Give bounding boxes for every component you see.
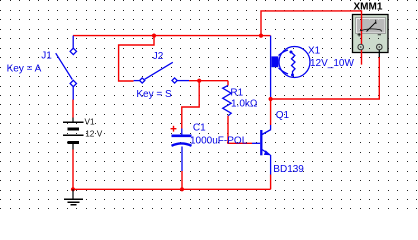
transistor Q1 (252, 125, 271, 175)
switch J1 (56, 36, 77, 100)
wire XMM1 minus to lamp node (271, 57, 380, 99)
svg-text:Key = S: Key = S (136, 89, 172, 100)
wire J1 to battery (72, 100, 74, 118)
svg-text:V1: V1 (85, 117, 96, 127)
junction top-left feed (152, 34, 156, 38)
wire Q1 emitter to bus (270, 175, 272, 190)
capacitor C1 (172, 129, 192, 172)
junction lamp top (259, 34, 263, 38)
resistor R1 (223, 86, 232, 116)
svg-text:BD139: BD139 (273, 164, 304, 175)
svg-text:J1: J1 (41, 51, 52, 62)
svg-text:C1: C1 (193, 123, 206, 134)
multimeter XMM1 (354, 1, 383, 57)
wire node to R1 top (227, 81, 229, 86)
wire top bus to lamp (261, 35, 271, 37)
junction J2/R1/C1 node (197, 79, 201, 83)
switch J2 (134, 62, 189, 83)
junction C1 bottom (180, 187, 184, 191)
wire C1 bottom to bus (181, 171, 183, 189)
svg-text:12V_10W: 12V_10W (310, 58, 354, 69)
svg-text:1.0kΩ: 1.0kΩ (231, 99, 258, 110)
svg-text:Q1: Q1 (276, 110, 290, 121)
wire XMM1 plus feed (261, 11, 362, 65)
wire J2 to R1 node (189, 80, 228, 82)
ground (64, 189, 83, 205)
svg-text:12 V: 12 V (85, 129, 103, 139)
wire bottom bus (73, 188, 271, 190)
junction bottom-left (71, 187, 75, 191)
svg-text:J2: J2 (153, 51, 164, 62)
junction lamp bottom node (269, 97, 273, 101)
lamp X1 (271, 36, 310, 99)
battery V1 (63, 118, 84, 150)
svg-text:R1: R1 (230, 87, 243, 98)
wire top bus (73, 35, 261, 37)
wire battery to ground bus (72, 150, 74, 190)
svg-text:1000uF-POL: 1000uF-POL (190, 136, 248, 147)
svg-text:Key = A: Key = A (7, 63, 42, 74)
svg-text:X1: X1 (308, 45, 321, 56)
svg-text:XMM1: XMM1 (354, 1, 383, 12)
wire R1 bottom to Q1 base (228, 116, 252, 144)
C1 plus sign (171, 126, 177, 132)
wire Q1 collector to lamp node (270, 99, 272, 125)
wire node to C1 top (182, 81, 199, 129)
wire J2 feed (119, 36, 154, 81)
